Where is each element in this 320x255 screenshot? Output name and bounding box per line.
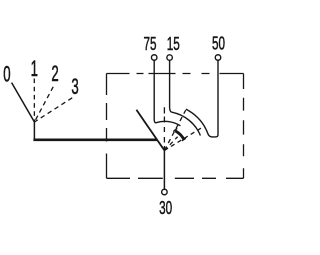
position pointer 1 (dashed) [33, 79, 35, 123]
wiper position 2 (dashed radial) [164, 110, 185, 150]
position pointer 2 (dashed) [34, 87, 53, 122]
wire: vertical link below position fan [33, 122, 35, 139]
svg-text:1: 1 [31, 57, 38, 81]
terminal circle 75 [151, 55, 157, 61]
switch housing dashed box: left edge [106, 74, 108, 179]
svg-text:50: 50 [212, 34, 225, 54]
wire + contact arc, terminal 15 [170, 60, 201, 135]
svg-text:75: 75 [143, 35, 156, 55]
wire + contact arc, terminal 75 [154, 60, 180, 125]
svg-text:2: 2 [51, 62, 58, 86]
svg-text:30: 30 [159, 199, 172, 219]
position pointer 0 (solid) [12, 83, 35, 122]
wire, terminal 30 to pivot [163, 150, 165, 189]
wire + contact arc, terminal 50 [186, 60, 218, 137]
terminal circle 30 [162, 189, 168, 195]
contact bridge (bold arc with end serifs) [173, 128, 186, 140]
terminal circle 15 [167, 55, 173, 61]
switch housing dashed box: top edge [107, 73, 244, 75]
svg-text:15: 15 [167, 35, 180, 55]
wire: thick horizontal feed line to switch lever [33, 138, 156, 141]
svg-text:3: 3 [71, 75, 78, 99]
wiper intermediate dashed radial under contact bridge [164, 137, 177, 151]
terminal circle 50 [215, 55, 221, 61]
wiper lever at position 0 (solid) [136, 110, 164, 151]
switch housing dashed box: bottom edge [107, 177, 244, 179]
wiper position 1 (dashed radial) [163, 107, 165, 150]
switch housing dashed box: right edge [243, 74, 245, 179]
position pointer 3 (dashed) [34, 98, 72, 122]
wiper position 3 (dashed radial) [164, 127, 202, 150]
svg-text:0: 0 [3, 62, 10, 86]
